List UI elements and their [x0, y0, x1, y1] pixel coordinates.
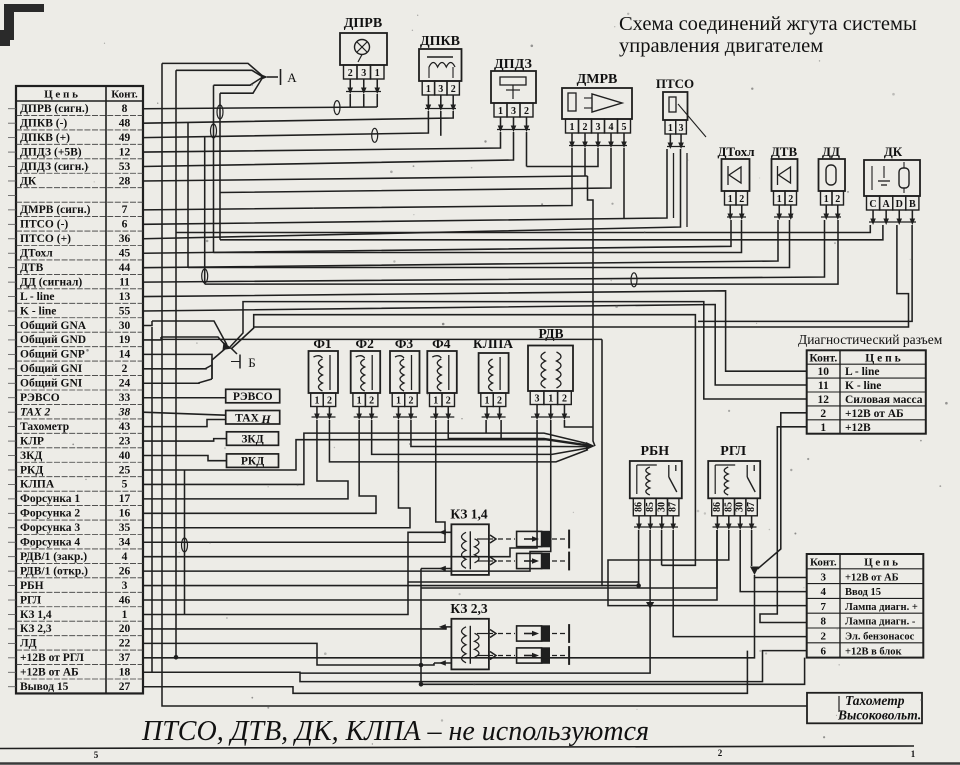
svg-text:1: 1 [357, 395, 362, 406]
box ТАХ Н [226, 411, 280, 425]
svg-text:Ц е п ь: Ц е п ь [864, 557, 898, 569]
svg-text:РГЛ: РГЛ [720, 444, 746, 459]
svg-text:ЛД: ЛД [20, 638, 37, 650]
svg-text:ТАХ 2: ТАХ 2 [20, 406, 51, 418]
wire ПТСО + [143, 149, 681, 239]
svg-text:Общий GNI: Общий GNI [20, 378, 83, 390]
wire V6 [219, 93, 221, 240]
wire ДК A [220, 225, 883, 240]
svg-text:25: 25 [119, 464, 131, 476]
wire K-line [143, 305, 807, 386]
svg-text:ДТохл: ДТохл [717, 144, 754, 159]
wire ДК B [698, 225, 912, 321]
svg-text:3: 3 [535, 393, 540, 404]
svg-text:16: 16 [119, 508, 131, 520]
svg-text:Диагностический разъем: Диагностический разъем [798, 332, 943, 347]
svg-text:7: 7 [122, 204, 128, 216]
svg-text:3: 3 [122, 580, 128, 592]
svg-text:85: 85 [723, 502, 734, 512]
wire diag +12В [760, 427, 807, 623]
svg-text:2: 2 [408, 395, 413, 406]
svg-text:ДПРВ (сигн.): ДПРВ (сигн.) [20, 103, 89, 115]
svg-text:ЗКД: ЗКД [20, 450, 42, 462]
wire РГЛ 87 merge [751, 530, 753, 566]
svg-text:ТАХ: ТАХ [235, 412, 259, 424]
wire ДТВ [143, 220, 778, 268]
wire pump vertical [601, 339, 603, 586]
svg-text:2: 2 [451, 84, 456, 95]
svg-text:L - line: L - line [845, 366, 880, 378]
wire ЗКД [143, 456, 227, 461]
wire РГЛ row [143, 530, 717, 600]
svg-text:КЗ 1,4: КЗ 1,4 [20, 609, 52, 621]
wire РБН 87 pump [673, 530, 807, 637]
svg-text:14: 14 [119, 349, 131, 361]
svg-text:D: D [896, 199, 903, 210]
svg-text:1: 1 [498, 106, 503, 117]
КЗ 1,4 spark plug outputs [477, 538, 493, 540]
svg-text:Общий GNI: Общий GNI [20, 363, 83, 375]
wire V3 [187, 123, 189, 268]
svg-text:РГЛ: РГЛ [20, 594, 42, 606]
wire ДМРВ pin2 stub [584, 148, 586, 177]
svg-text:5: 5 [622, 122, 627, 133]
wire ДТохл [143, 220, 731, 253]
svg-text:ДМРВ: ДМРВ [577, 72, 618, 87]
КЗ 2,3 spark plug outputs [477, 633, 493, 635]
svg-text:2: 2 [583, 122, 588, 133]
Ф3 coil symbol [395, 356, 404, 391]
svg-text:24: 24 [119, 378, 131, 390]
svg-text:6: 6 [122, 219, 128, 231]
wire ДПРВ signal [143, 107, 377, 109]
Ф4 coil symbol [432, 356, 441, 391]
svg-text:РДВ/1 (откр.): РДВ/1 (откр.) [20, 565, 88, 577]
svg-text:12: 12 [119, 146, 131, 158]
svg-text:37: 37 [119, 652, 131, 664]
wire ЛД [143, 643, 421, 665]
svg-text:Высоковольт.: Высоковольт. [837, 708, 921, 723]
svg-text:K - line: K - line [20, 305, 56, 317]
wire Общий GNA [143, 321, 152, 325]
wire Вывод 15 row [143, 651, 747, 694]
svg-text:26: 26 [119, 565, 131, 577]
svg-text:8: 8 [821, 616, 827, 628]
svg-text:КЛПА: КЛПА [473, 336, 513, 351]
wire РБН 85 lamp minus [300, 530, 650, 673]
svg-text:18: 18 [119, 667, 131, 679]
wire ДПДЗ signal [143, 132, 514, 167]
Ф2 coil symbol [356, 356, 365, 391]
svg-text:Общий GND: Общий GND [20, 334, 86, 346]
svg-text:13: 13 [119, 291, 131, 303]
wire V1 to tachometer [162, 63, 807, 706]
svg-text:5: 5 [122, 479, 128, 491]
svg-text:ДПРВ: ДПРВ [344, 16, 382, 31]
node Б output to РБН-30 [231, 315, 695, 566]
svg-text:1: 1 [824, 194, 829, 205]
svg-text:Конт.: Конт. [810, 557, 837, 569]
wire ДД ground [205, 220, 838, 284]
svg-text:ДК: ДК [20, 175, 37, 187]
node Б output to ground bus [230, 302, 807, 399]
svg-text:1: 1 [426, 84, 431, 95]
РГЛ internals [714, 465, 716, 494]
svg-text:ДПДЗ (+5В): ДПДЗ (+5В) [20, 146, 82, 158]
wire КЛР [143, 439, 227, 441]
wire КЗ 2,3 feed [143, 627, 451, 629]
svg-text:КЗ 1,4: КЗ 1,4 [450, 506, 487, 521]
svg-text:44: 44 [119, 262, 131, 274]
svg-text:Форсунка 3: Форсунка 3 [20, 522, 80, 534]
svg-text:11: 11 [818, 380, 829, 392]
wire Форсунка 4 [143, 420, 445, 542]
svg-text:ПТСО, ДТВ, ДК, КЛПА – не: ПТСО, ДТВ, ДК, КЛПА – не используются [141, 716, 649, 747]
wire V8 [184, 470, 186, 615]
svg-text:4: 4 [122, 551, 128, 563]
svg-text:РБН: РБН [640, 444, 669, 459]
svg-text:Ф4: Ф4 [432, 336, 451, 351]
svg-text:Форсунка 1: Форсунка 1 [20, 493, 80, 505]
wire Общий GNI [143, 365, 212, 369]
wire V7 [151, 327, 153, 672]
svg-text:А: А [287, 70, 297, 85]
wire ДПДЗ +5В [143, 132, 501, 152]
svg-text:Лампа диагн. +: Лампа диагн. + [845, 602, 918, 613]
svg-text:ДПКВ (+): ДПКВ (+) [20, 132, 70, 144]
wire +12В от РГЛ row [143, 578, 755, 658]
svg-text:87: 87 [746, 502, 757, 512]
svg-text:40: 40 [119, 450, 131, 462]
wire ДМРВ signal [143, 148, 572, 210]
wire РБН 86 [408, 582, 639, 586]
svg-text:1: 1 [820, 422, 826, 434]
svg-text:30: 30 [735, 502, 746, 512]
svg-text:B: B [909, 199, 916, 210]
svg-text:ДК: ДК [884, 144, 903, 159]
svg-text:K - line: K - line [845, 380, 881, 392]
svg-text:36: 36 [119, 233, 131, 245]
wire Общий GND [143, 337, 161, 340]
wire РБН row [143, 585, 639, 587]
spark plug [517, 531, 542, 546]
wire bus riser [588, 176, 596, 446]
wire ПТСО - [143, 149, 667, 224]
ECU pin table [16, 86, 143, 693]
wire Форсунка 3 [143, 420, 410, 528]
svg-text:3: 3 [438, 84, 443, 95]
svg-text:Ф2: Ф2 [356, 336, 375, 351]
svg-text:38: 38 [118, 406, 131, 418]
wire ДК C [176, 225, 870, 233]
svg-text:2: 2 [348, 68, 353, 79]
+12 injector bus merge arrow [586, 442, 595, 450]
svg-text:3: 3 [679, 123, 684, 134]
svg-text:ДД: ДД [822, 144, 840, 159]
КЗ 1,4 transformer symbol [462, 532, 467, 568]
svg-text:+12В от РГЛ: +12В от РГЛ [20, 652, 84, 664]
svg-text:КЛПА: КЛПА [20, 479, 55, 491]
spark plug [517, 626, 542, 641]
wire Форсунка 1 [143, 420, 348, 499]
svg-text:Схема соединений жгута системы: Схема соединений жгута системы [619, 13, 917, 35]
svg-text:34: 34 [119, 537, 131, 549]
svg-text:РКД: РКД [241, 456, 264, 468]
wire V4 [204, 137, 206, 284]
wire РДВ закр [143, 420, 537, 557]
svg-text:30: 30 [119, 320, 131, 332]
wire fan into node Б [152, 321, 227, 345]
svg-text:4: 4 [821, 586, 827, 598]
svg-text:2: 2 [718, 748, 723, 758]
svg-text:86: 86 [634, 502, 645, 512]
svg-text:КЗ 2,3: КЗ 2,3 [20, 623, 52, 635]
svg-text:3: 3 [361, 68, 366, 79]
harness connector table [807, 554, 924, 658]
wire ДМРВ pin5 [623, 148, 625, 218]
svg-text:ДПКВ (-): ДПКВ (-) [20, 117, 67, 129]
wire bus Ф4-2 [448, 420, 588, 445]
РБН internals [636, 465, 638, 494]
ДПКВ inductor symbol [427, 56, 453, 58]
spark plug [517, 648, 542, 663]
svg-text:86: 86 [712, 502, 723, 512]
wire Общий GNI 24 [143, 379, 212, 383]
box ЗКД [227, 432, 279, 446]
wire ТАХ2 [143, 412, 226, 415]
wire bus РДВ-2 [564, 420, 593, 427]
wire Тахометр [143, 420, 226, 427]
svg-text:22: 22 [119, 638, 131, 650]
wire V5 [213, 85, 215, 252]
svg-text:10: 10 [818, 366, 830, 378]
svg-text:53: 53 [119, 161, 131, 173]
svg-text:1: 1 [433, 395, 438, 406]
ДТохл symbol [727, 166, 729, 185]
svg-text:1: 1 [570, 122, 575, 133]
svg-text:ДТВ: ДТВ [771, 144, 798, 159]
svg-text:1: 1 [911, 749, 916, 759]
ДМРВ symbol [568, 93, 576, 111]
svg-text:46: 46 [119, 594, 131, 606]
svg-text:30: 30 [656, 502, 667, 512]
svg-text:2: 2 [524, 106, 529, 117]
svg-text:2: 2 [497, 395, 502, 406]
svg-text:6: 6 [821, 645, 827, 657]
svg-text:Конт.: Конт. [809, 352, 837, 364]
wire ДД signal [143, 220, 825, 282]
wire bus Ф3-2 [411, 420, 588, 447]
svg-text:C: C [869, 199, 876, 210]
svg-text:ДМРВ (сигн.): ДМРВ (сигн.) [20, 204, 91, 216]
svg-text:2: 2 [369, 395, 374, 406]
svg-text:85: 85 [645, 502, 656, 512]
svg-text:управления двигателем: управления двигателем [619, 35, 823, 57]
svg-text:ДТВ: ДТВ [20, 262, 44, 274]
svg-text:43: 43 [119, 421, 131, 433]
svg-text:1: 1 [548, 393, 553, 404]
svg-text:ПТСО: ПТСО [656, 76, 694, 91]
svg-text:Конт.: Конт. [111, 89, 138, 101]
svg-text:1: 1 [396, 395, 401, 406]
svg-text:23: 23 [119, 435, 131, 447]
svg-text:19: 19 [119, 334, 131, 346]
spark plug [517, 553, 542, 568]
svg-text:2: 2 [562, 393, 567, 404]
svg-text:КЗ 2,3: КЗ 2,3 [450, 601, 487, 616]
wire ДТохл ground [214, 220, 742, 253]
ДПРВ sensor symbol [355, 40, 370, 55]
wire +12В от АБ row [143, 651, 807, 682]
wire КЗ common return [421, 569, 805, 685]
svg-text:7: 7 [821, 601, 827, 613]
wire ДК row 28 to +12 bus riser [143, 176, 588, 181]
svg-text:1: 1 [122, 609, 128, 621]
svg-text:Форсунка 4: Форсунка 4 [20, 537, 80, 549]
svg-text:17: 17 [119, 493, 131, 505]
svg-text:45: 45 [119, 248, 131, 260]
ДТВ symbol [777, 166, 779, 185]
wire КЗ 1,4 low [421, 568, 451, 570]
box РЭВСО [226, 389, 280, 403]
svg-text:РДВ/1 (закр.): РДВ/1 (закр.) [20, 551, 87, 563]
svg-text:11: 11 [119, 276, 130, 288]
svg-text:РКД: РКД [20, 464, 43, 476]
wire bus Ф1-2 [329, 420, 588, 462]
svg-text:ДПКВ: ДПКВ [420, 34, 460, 49]
wire КЗ 1,4 feed [143, 532, 451, 614]
svg-text:49: 49 [119, 132, 131, 144]
svg-text:Лампа диагн. -: Лампа диагн. - [845, 617, 916, 628]
svg-text:8: 8 [122, 103, 128, 115]
svg-text:Б: Б [248, 355, 255, 370]
svg-text:27: 27 [119, 681, 131, 693]
svg-text:ДТохл: ДТохл [20, 248, 53, 260]
svg-text:4: 4 [609, 122, 614, 133]
svg-text:33: 33 [119, 392, 131, 404]
svg-text:Силовая масса: Силовая масса [845, 394, 923, 406]
svg-text:3: 3 [596, 122, 601, 133]
svg-text:20: 20 [119, 623, 131, 635]
svg-text:Ввод 15: Ввод 15 [845, 587, 881, 598]
КЗ 2,3 transformer symbol [462, 627, 467, 663]
tachometer box [807, 693, 922, 724]
svg-text:Вывод 15: Вывод 15 [20, 681, 69, 693]
wire ДМРВ pin3 to ДПДЗ pin2 [527, 148, 599, 167]
svg-text:Ф3: Ф3 [395, 336, 414, 351]
wire Общий GNP [143, 354, 212, 379]
wire Форсунка 2 [143, 420, 376, 513]
svg-text:ДД (сигнал): ДД (сигнал) [20, 276, 82, 288]
wire diag +12В от АБ [758, 413, 807, 569]
svg-text:Н: Н [260, 412, 271, 426]
wire РЭВСО [143, 397, 226, 399]
wire КЗ 2,3 low [434, 662, 451, 664]
mating bars under injector pins [312, 416, 336, 418]
svg-text:Ц е п ь: Ц е п ь [865, 352, 900, 364]
svg-text:48: 48 [119, 117, 131, 129]
ДД symbol [826, 165, 836, 185]
КЛПА coil symbol [489, 359, 493, 391]
wire fan into node A [162, 63, 262, 75]
svg-text:ПТСО (-): ПТСО (-) [20, 219, 68, 231]
svg-text:35: 35 [119, 522, 131, 534]
wire ДПКВ + [143, 111, 428, 138]
svg-text:Форсунка 2: Форсунка 2 [20, 508, 80, 520]
wire ДТВ ground [188, 220, 790, 268]
svg-text:55: 55 [119, 305, 131, 317]
connector mating bars [346, 91, 381, 93]
mating bars under relay pins [634, 526, 678, 528]
svg-text:87: 87 [668, 502, 679, 512]
svg-text:РЭВСО: РЭВСО [233, 391, 273, 403]
scan corner mark [4, 4, 44, 40]
wire ДПКВ - [143, 111, 453, 123]
svg-text:Тахометр: Тахометр [845, 693, 905, 708]
svg-text:28: 28 [119, 175, 131, 187]
svg-text:2: 2 [835, 194, 840, 205]
svg-text:3: 3 [821, 571, 827, 583]
svg-text:ЗКД: ЗКД [241, 434, 263, 446]
wire РГЛ 30 Ввод 15 [740, 530, 807, 592]
svg-text:Тахометр: Тахометр [20, 421, 69, 433]
svg-text:+12В от АБ: +12В от АБ [845, 572, 899, 583]
svg-text:РЭВСО: РЭВСО [20, 392, 60, 404]
svg-text:1: 1 [777, 194, 782, 205]
svg-text:+12В от АБ: +12В от АБ [845, 408, 904, 420]
node Б [223, 342, 233, 350]
svg-text:+12В в блок: +12В в блок [845, 646, 903, 657]
wire РГЛ 86 [421, 530, 717, 588]
ДК symbol [871, 166, 873, 190]
wire V2 [175, 70, 177, 657]
svg-text:2: 2 [327, 395, 332, 406]
wire L-line [143, 291, 807, 371]
wire bus Ф2-2 [372, 420, 588, 454]
svg-text:12: 12 [818, 394, 830, 406]
svg-text:Общий GNP: Общий GNP [20, 349, 85, 361]
wire РДВ откр [143, 420, 551, 571]
svg-text:Ф1: Ф1 [313, 336, 332, 351]
svg-text:+12В: +12В [845, 422, 871, 434]
РДВ coil symbol [541, 352, 546, 388]
svg-text:1: 1 [375, 68, 380, 79]
svg-text:1: 1 [668, 123, 673, 134]
svg-text:5: 5 [94, 750, 99, 760]
svg-text:ДПДЗ: ДПДЗ [494, 57, 532, 72]
svg-text:2: 2 [821, 631, 827, 643]
node A [261, 74, 268, 80]
svg-text:Ц е п ь: Ц е п ь [44, 89, 78, 101]
svg-text:2: 2 [122, 363, 128, 375]
svg-text:1: 1 [728, 194, 733, 205]
svg-text:ДПДЗ (сигн.): ДПДЗ (сигн.) [20, 161, 88, 173]
box РКД [227, 454, 279, 468]
svg-text:3: 3 [511, 106, 516, 117]
svg-text:ПТСО (+): ПТСО (+) [20, 233, 71, 245]
ДПДЗ potentiometer symbol [500, 77, 526, 85]
svg-text:A: A [883, 199, 891, 210]
svg-text:+12В от АБ: +12В от АБ [20, 667, 79, 679]
svg-text:2: 2 [820, 408, 826, 420]
wire РКД long [143, 440, 588, 470]
svg-text:2: 2 [788, 194, 793, 205]
svg-text:1: 1 [314, 395, 319, 406]
svg-text:Общий GNA: Общий GNA [20, 320, 87, 332]
wire КЛПА [143, 433, 588, 484]
svg-text:Эл. бензонасос: Эл. бензонасос [845, 632, 915, 643]
Ф1 coil symbol [314, 356, 323, 391]
